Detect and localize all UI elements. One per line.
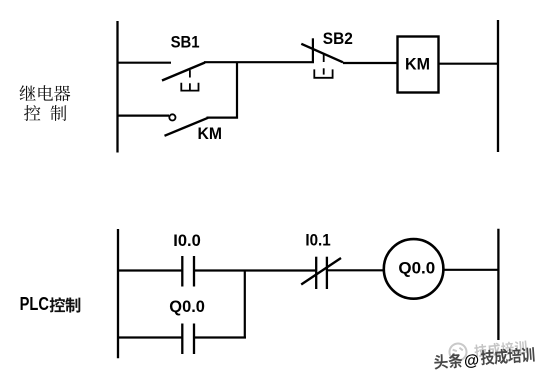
svg-text:Q0.0: Q0.0 — [398, 258, 435, 277]
svg-text:I0.0: I0.0 — [173, 231, 201, 250]
svg-text:Q0.0: Q0.0 — [169, 297, 205, 316]
svg-text:SB2: SB2 — [323, 29, 353, 48]
wire: left rail to contact Q0.0 — [117, 336, 182, 338]
contactor coil KM (box) — [398, 37, 439, 93]
wire: left rail to KM auxiliary contact — [117, 114, 169, 116]
wire: I0.0 to I0.1 (through branch junction) — [194, 269, 316, 271]
watermark 技成培训 (light gray, rotated) — [474, 340, 527, 358]
output coil Q0.0 (circle) — [384, 239, 444, 299]
watermark logo (light gray circle emblem) — [448, 342, 467, 361]
svg-text:SB1: SB1 — [171, 33, 200, 52]
watermark 技成培训 (dark) — [480, 347, 535, 366]
pushbutton SB2 (normally closed) — [301, 38, 343, 78]
wire: KM coil to right rail — [439, 63, 500, 65]
wire: parallel branch vertical (seal-in) — [244, 270, 246, 339]
label 继电器控制 (relay control, serif) — [20, 85, 71, 101]
wire: left rail to SB1 — [117, 62, 171, 64]
svg-text:KM: KM — [198, 124, 223, 143]
left power rail (relay circuit) — [116, 21, 118, 153]
svg-text:KM: KM — [405, 54, 430, 73]
pushbutton SB1 (normally open) — [162, 63, 205, 91]
watermark 头条@技成培训 (dark gray) — [434, 353, 463, 370]
contact I0.0 (normally open) — [182, 256, 194, 287]
wire: branch from top wire down to KM contact — [207, 63, 238, 118]
contact I0.1 (normally closed) — [301, 257, 341, 289]
svg-text:@: @ — [464, 352, 480, 370]
svg-text:PLC: PLC — [20, 294, 49, 314]
right power rail (PLC ladder) — [497, 229, 499, 340]
wire: coil Q0.0 to right rail — [443, 269, 499, 271]
left power rail (PLC ladder) — [117, 229, 119, 358]
wire: SB2 to KM coil — [343, 62, 398, 64]
svg-text:I0.1: I0.1 — [305, 231, 330, 250]
auxiliary contact KM (normally open, with fixed-contact circle) — [165, 114, 209, 136]
wire: I0.1 to output coil Q0.0 — [327, 269, 385, 271]
watermark @ — [464, 352, 480, 370]
wire: contact Q0.0 to branch junction — [194, 336, 246, 338]
contact Q0.0 (normally open, seal-in) — [182, 324, 194, 355]
right power rail (relay circuit) — [497, 20, 499, 152]
wire: SB1 to SB2 — [204, 61, 314, 63]
label 控制 line2 — [24, 105, 66, 121]
wire: left rail to contact I0.0 — [117, 269, 182, 271]
